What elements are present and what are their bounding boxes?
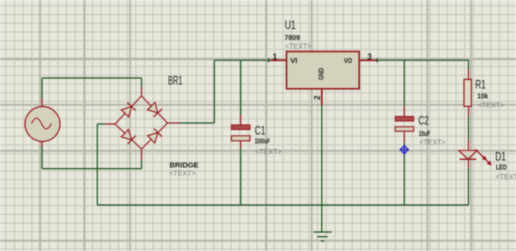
pin bridge right stub	[168, 122, 180, 124]
diode D-bottomleft	[121, 130, 136, 145]
wire C1 branch vertical	[240, 60, 242, 114]
wire bottom horizontal to bridge	[42, 168, 142, 170]
wire AC bottom vertical	[41, 147, 43, 169]
pin bridge left stub	[105, 123, 115, 125]
capacitor C2	[395, 117, 413, 132]
svg-text:<TEXT>: <TEXT>	[419, 138, 446, 147]
wire up to bridge bottom	[141, 160, 143, 169]
LED D1	[459, 149, 492, 165]
bridge rectifier BR1	[115, 96, 168, 149]
pin bridge top stub	[141, 87, 143, 96]
pin LED cathode lead	[468, 159, 470, 168]
svg-text:VI: VI	[290, 56, 297, 65]
ground symbol	[314, 232, 332, 241]
pin AC source top stub	[41, 98, 43, 107]
svg-text:VO: VO	[344, 56, 352, 65]
wire R1 to LED	[468, 117, 470, 140]
wire LED bottom to rail	[468, 168, 470, 205]
capacitor C1	[231, 125, 250, 141]
pin R1 bottom lead	[468, 106, 470, 116]
wire bridge right horizontal	[180, 122, 215, 124]
wire C2 branch vertical	[403, 60, 405, 106]
wire ground stem	[321, 205, 323, 232]
pin C1 top lead	[240, 115, 242, 125]
pin C2 top lead	[403, 106, 405, 116]
pin U1 pin 2 stub	[321, 89, 323, 105]
svg-text:BR1: BR1	[168, 74, 183, 88]
svg-text:GND: GND	[317, 68, 326, 81]
pin AC source bottom stub	[41, 141, 43, 147]
pin U1 pin 1 stub	[270, 59, 287, 61]
node junction marker (blue)	[400, 145, 410, 155]
svg-text:<TEXT>: <TEXT>	[285, 42, 312, 51]
wire top horizontal to bridge	[42, 77, 142, 79]
diode D-bottomright	[148, 129, 163, 144]
wire horizontal to U1 pin 1	[214, 59, 272, 61]
pin C1 bottom lead	[240, 141, 242, 148]
wire end tick marks at pin junctions	[269, 58, 378, 62]
svg-text:C1: C1	[255, 124, 266, 138]
wire vertical up from bridge output	[213, 60, 215, 123]
svg-text:1: 1	[273, 52, 278, 61]
regulator U1 7809	[287, 52, 360, 89]
svg-text:3300uF: 3300uF	[255, 138, 271, 145]
AC source V1	[25, 107, 60, 142]
wire R1 top	[468, 60, 470, 69]
diode D-topright	[148, 103, 163, 117]
wire down to bridge top	[141, 78, 143, 87]
pin bridge bottom stub	[141, 149, 143, 160]
pin U1 pin 3 stub	[359, 59, 377, 61]
svg-text:<TEXT>: <TEXT>	[255, 147, 282, 156]
resistor R1	[464, 79, 471, 106]
svg-text:<TEXT>: <TEXT>	[478, 100, 505, 109]
svg-text:C2: C2	[418, 114, 429, 128]
svg-text:R1: R1	[475, 77, 486, 91]
wire U1 ground vertical to rail	[321, 105, 323, 205]
svg-text:LED: LED	[496, 164, 507, 171]
svg-text:<TEXT>: <TEXT>	[169, 169, 196, 178]
pin R1 top lead	[468, 70, 470, 80]
svg-text:2: 2	[313, 95, 322, 100]
svg-text:D1: D1	[495, 149, 506, 163]
svg-text:U1: U1	[285, 18, 296, 32]
pin LED anode lead	[468, 140, 470, 151]
svg-text:<TEXT>: <TEXT>	[496, 172, 516, 181]
pin C2 bottom lead to node	[403, 131, 405, 142]
wire left vertical down to ground rail	[96, 124, 98, 205]
diode D-topleft	[121, 103, 136, 117]
wire C2 node to rail	[403, 143, 405, 206]
bridge edges	[115, 96, 168, 149]
wire AC top vertical	[41, 78, 43, 98]
wire bottom ground rail	[97, 204, 468, 206]
wire U1 output horizontal	[377, 59, 468, 61]
wire bridge left to corner	[97, 123, 105, 125]
wire C1 bottom to rail	[240, 148, 242, 205]
svg-text:3: 3	[367, 52, 372, 61]
